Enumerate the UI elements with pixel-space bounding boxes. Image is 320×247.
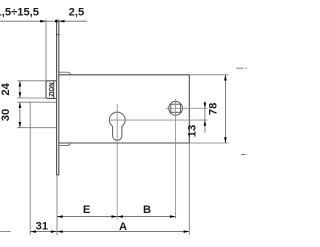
dimension 24 extension line top — [17, 80, 46, 82]
latch bolt body — [46, 81, 57, 99]
dimension 78 line — [224, 75, 226, 143]
cylinder horizontal centerline — [109, 119, 208, 121]
dimension 30 extension line bottom — [17, 127, 56, 129]
follower square spindle hole — [171, 104, 181, 112]
svg-text:31: 31 — [36, 220, 48, 232]
svg-text:24: 24 — [0, 82, 12, 95]
dimension A arrow right — [184, 230, 190, 233]
cylinder clearance line — [29, 102, 31, 235]
dimension 13 line — [204, 101, 206, 133]
dimension 2,5 arrow — [59, 20, 65, 23]
dimension 24 arrow down — [19, 92, 22, 98]
faceplate lower extension line — [56, 175, 58, 235]
dimension 30 arrow up — [19, 102, 22, 108]
dimension 1,5÷15,5 arrow — [40, 20, 46, 23]
svg-text:2,5: 2,5 — [69, 6, 85, 18]
svg-text:78: 78 — [207, 103, 219, 115]
lock body bottom edge — [59, 142, 190, 144]
follower horizontal centerline — [166, 107, 208, 109]
dimension 78 arrow up — [224, 75, 227, 81]
latch bolt inner edge — [53, 81, 55, 99]
lock body top mounting tab — [59, 72, 71, 75]
dimension B arrow right — [170, 215, 176, 218]
euro cylinder profile hole — [109, 112, 125, 140]
dimension 24 arrow up — [19, 81, 22, 87]
svg-text:30: 30 — [0, 109, 12, 121]
svg-text:A: A — [119, 221, 127, 233]
lock body right edge — [188, 75, 190, 143]
dimension 31 arrow right / A arrow left bowtie — [51, 230, 63, 233]
cylinder vertical centerline — [116, 104, 118, 219]
faceplate front edge — [56, 20, 58, 175]
dimension E-B line — [57, 216, 176, 218]
dimension 24 line — [19, 81, 21, 98]
dimension 78 arrow down — [224, 137, 227, 143]
right edge datum mark lower — [241, 154, 247, 156]
faceplate top end — [56, 34, 59, 36]
dimension 31 arrow left — [30, 230, 36, 233]
dimension 30 arrow down — [19, 122, 22, 128]
dimension 13 arrow down (to follower axis) — [204, 103, 207, 109]
dimension 78 extension line top — [189, 74, 228, 76]
dimension E arrow left — [57, 215, 63, 218]
lock body bottom mounting tab — [59, 143, 71, 146]
svg-text:NOIZ: NOIZ — [47, 83, 53, 98]
body back lower extension line — [188, 143, 190, 235]
faceplate bottom end — [56, 174, 59, 176]
svg-text:B: B — [143, 204, 151, 216]
left cut-off dimension line fragment — [0, 230, 11, 232]
dimension 30 line — [19, 102, 21, 128]
lock body top edge — [59, 74, 190, 76]
dimension 30 extension line top — [17, 101, 56, 103]
dimension E arrow right / B arrow left bowtie — [112, 215, 123, 218]
dimension 1,5÷15,5 line — [0, 20, 87, 22]
latch bolt front face extension line — [45, 20, 47, 81]
dimension 78 extension line bottom — [189, 142, 228, 144]
right edge datum mark upper — [236, 67, 247, 69]
svg-text:E: E — [83, 204, 91, 216]
dimension 31-A line — [30, 231, 189, 233]
shared dot terminator — [55, 20, 58, 23]
dimension 13 arrow up (to cylinder axis) — [204, 120, 207, 126]
faceplate back edge — [58, 20, 60, 175]
dimension 24 extension line bottom — [17, 97, 46, 99]
follower vertical centerline — [175, 99, 177, 219]
svg-text:13: 13 — [187, 125, 199, 137]
svg-text:1,5÷15,5: 1,5÷15,5 — [0, 6, 39, 18]
follower circle — [169, 101, 183, 115]
